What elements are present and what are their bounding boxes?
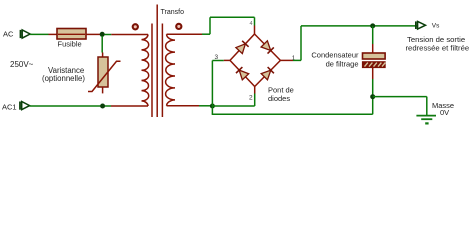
wire secondary bottom to node bbox=[199, 105, 211, 107]
bottom rail bbox=[212, 113, 373, 115]
port AC1 bbox=[20, 102, 30, 110]
svg-text:0V: 0V bbox=[440, 108, 449, 117]
wire bridge right to plus rail bbox=[293, 26, 418, 61]
svg-text:AC1: AC1 bbox=[2, 103, 17, 112]
svg-text:250V~: 250V~ bbox=[10, 60, 34, 69]
junction ground rail bbox=[370, 94, 375, 99]
wire bridge left to node bbox=[212, 61, 223, 115]
svg-text:(optionnelle): (optionnelle) bbox=[42, 74, 85, 83]
junction secondary bottom bbox=[210, 104, 215, 109]
svg-text:3: 3 bbox=[215, 54, 219, 61]
diode bridge outline bbox=[224, 26, 293, 94]
svg-text:4: 4 bbox=[250, 21, 253, 27]
diode D2 (top to right) bbox=[261, 41, 274, 54]
svg-text:AC: AC bbox=[3, 30, 14, 39]
wire cap bottom bbox=[372, 79, 374, 114]
wire junction to primary bbox=[104, 34, 111, 36]
svg-text:Tension de sortie: Tension de sortie bbox=[407, 35, 465, 44]
junction varistor/AC1 bbox=[100, 104, 105, 109]
diode D3 (bottom to left) bbox=[236, 67, 249, 80]
wire node to bridge bottom bbox=[212, 94, 254, 107]
primary polarity dot bbox=[133, 24, 138, 29]
junction cap top bbox=[370, 23, 375, 28]
diode D4 (bottom to right) bbox=[261, 67, 274, 80]
wire fuse junction to varistor bbox=[101, 36, 103, 53]
wire junction to primary bottom bbox=[105, 105, 111, 107]
transformer core bbox=[152, 5, 162, 118]
port Vs bbox=[416, 21, 426, 29]
transformer primary winding bbox=[111, 35, 149, 107]
secondary polarity dot bbox=[176, 24, 181, 29]
diode D1 (left to top) bbox=[236, 41, 249, 54]
port AC bbox=[21, 30, 31, 38]
svg-text:Condensateur: Condensateur bbox=[311, 51, 359, 60]
svg-text:Transfo: Transfo bbox=[161, 9, 185, 16]
wire AC1 to junction bbox=[30, 105, 101, 107]
svg-text:Fusible: Fusible bbox=[58, 40, 82, 49]
svg-text:de filtrage: de filtrage bbox=[326, 60, 359, 69]
svg-text:2: 2 bbox=[249, 95, 253, 102]
svg-text:diodes: diodes bbox=[268, 94, 290, 103]
wire secondary top to bridge top bbox=[202, 17, 255, 34]
wire rail to cap bbox=[372, 26, 374, 44]
fuse F1 bbox=[49, 29, 102, 40]
svg-text:redressée et filtrée: redressée et filtrée bbox=[406, 44, 470, 53]
wire AC to fuse bbox=[30, 33, 48, 35]
wire to ground bbox=[373, 97, 427, 115]
svg-text:Vs: Vs bbox=[432, 22, 440, 29]
varistor RV1 bbox=[88, 53, 121, 94]
junction fuse/varistor bbox=[100, 32, 105, 37]
transformer secondary winding bbox=[166, 34, 202, 106]
capacitor C1 bbox=[363, 44, 386, 79]
ground symbol Masse bbox=[416, 116, 436, 125]
